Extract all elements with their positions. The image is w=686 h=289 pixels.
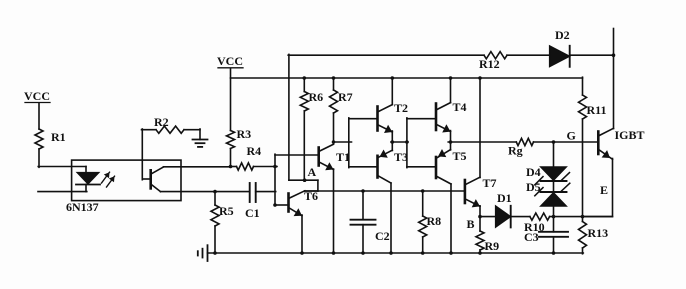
svg-text:R5: R5	[219, 204, 234, 218]
wire T1 base	[275, 154, 319, 156]
transistor T2	[378, 78, 409, 133]
wire R10 to E line	[550, 216, 612, 218]
node C2 top	[361, 189, 365, 193]
wire phototransistor collector to R3/R4 node	[164, 166, 232, 168]
svg-text:D2: D2	[555, 28, 570, 42]
svg-text:R11: R11	[587, 103, 607, 117]
svg-text:T1: T1	[336, 150, 350, 164]
node rail T7	[478, 76, 482, 80]
node rail R9	[478, 251, 482, 255]
wire R11 past gate to R13	[582, 119, 584, 222]
svg-text:VCC: VCC	[24, 89, 50, 103]
top rail VCC	[231, 77, 583, 79]
resistor R13	[579, 222, 609, 249]
node rail T1e	[332, 251, 336, 255]
node R3/R4/collector junction	[229, 165, 233, 169]
resistor R3	[227, 127, 252, 149]
wire phototransistor emitter line	[161, 191, 250, 193]
node rail C2	[361, 251, 365, 255]
resistor R5	[211, 192, 234, 254]
node T1 collector / R7	[332, 140, 336, 144]
node rail T5c	[449, 251, 453, 255]
svg-text:T2: T2	[394, 101, 408, 115]
wire T7 collector riser	[479, 78, 481, 178]
resistor R2	[142, 115, 201, 133]
svg-text:T4: T4	[453, 100, 467, 114]
svg-text:R12: R12	[479, 57, 500, 71]
transistor T5	[436, 149, 467, 254]
wire stage1 base route	[349, 118, 378, 168]
wire R12/D2 top line	[288, 54, 614, 56]
wire gate drive	[448, 141, 598, 143]
node stage1 emitter	[391, 140, 395, 144]
svg-text:G: G	[567, 129, 576, 143]
svg-text:6N137: 6N137	[66, 200, 99, 214]
IGBT Q1	[598, 128, 644, 159]
svg-text:IGBT: IGBT	[615, 128, 645, 142]
wire VCC1 to R1	[38, 103, 40, 129]
node rail R5	[213, 251, 217, 255]
wire T4/T5 emitter join	[450, 131, 452, 150]
capacitor C3	[524, 217, 568, 254]
resistor R10	[524, 213, 550, 234]
svg-text:Rg: Rg	[508, 144, 523, 158]
node rail T3c	[389, 251, 393, 255]
wire C1 to base node	[256, 191, 276, 193]
wire R13 to rail corner	[582, 248, 584, 254]
node A junction	[303, 165, 317, 182]
wire IGBT emitter riser	[582, 159, 613, 217]
svg-text:D1: D1	[497, 191, 512, 205]
wire gate to D4	[553, 142, 555, 167]
optocoupler LED D (6N137 input)	[76, 173, 100, 185]
svg-text:R1: R1	[51, 130, 66, 144]
resistor R8	[419, 191, 441, 254]
node R5 top	[213, 190, 217, 194]
wire T7 emitter to B	[479, 206, 481, 218]
wire stage1 input	[334, 141, 352, 143]
resistor R11	[579, 95, 607, 119]
power label VCC (driver)	[217, 54, 243, 68]
transistor T4	[436, 78, 467, 133]
wire base node vertical	[274, 154, 276, 206]
wire D4 to D5	[553, 181, 555, 192]
wire T6 emitter to rail	[301, 215, 303, 254]
svg-text:C3: C3	[524, 230, 539, 244]
svg-text:A: A	[308, 165, 317, 179]
svg-text:R2: R2	[154, 115, 169, 129]
svg-text:C2: C2	[375, 229, 390, 243]
wire node A horizontal	[289, 180, 318, 191]
node R8 top	[421, 189, 425, 193]
ground (R2 return)	[193, 129, 208, 147]
resistor R12	[479, 52, 507, 71]
svg-text:R9: R9	[485, 239, 500, 253]
svg-text:D4: D4	[526, 165, 541, 179]
node rail R8	[421, 251, 425, 255]
node rail T6e	[300, 251, 304, 255]
node R4/base junction	[273, 165, 277, 169]
node rail R7	[332, 76, 336, 80]
wire stage2 base route	[407, 118, 436, 168]
wire input cathode line	[38, 185, 87, 192]
zener D5	[526, 180, 570, 206]
svg-text:D5: D5	[526, 180, 541, 194]
svg-text:VCC: VCC	[217, 54, 243, 68]
optocoupler U1 6N137 box	[66, 160, 181, 214]
diode D2	[550, 28, 570, 67]
wire T2/T3 emitter join	[391, 131, 393, 151]
zener D4	[526, 165, 570, 185]
bottom rail	[208, 252, 584, 254]
node B	[467, 215, 482, 231]
node rail T4	[449, 76, 453, 80]
LED light arrows	[102, 172, 115, 187]
resistor Rg	[508, 138, 534, 157]
svg-text:C1: C1	[245, 206, 260, 220]
wire rail corner to R11	[582, 77, 584, 95]
node rail T2	[391, 76, 395, 80]
resistor R6	[300, 78, 323, 181]
wire R1 to LED anode	[38, 149, 86, 173]
svg-text:T7: T7	[483, 176, 497, 190]
svg-text:R8: R8	[427, 214, 442, 228]
wire B to D1	[480, 216, 496, 218]
node zener tap	[552, 140, 556, 144]
node T6 base junction	[273, 203, 277, 207]
node D2 to collector rail	[612, 53, 616, 57]
resistor R7	[330, 78, 353, 143]
power label VCC (left)	[24, 89, 50, 103]
label E	[600, 183, 608, 197]
node zener/C3 bottom junction	[552, 215, 556, 219]
transistor T3	[378, 150, 409, 254]
transistor T1	[319, 144, 350, 170]
capacitor C1	[245, 183, 260, 220]
wire IGBT collector rail	[613, 29, 615, 129]
svg-text:E: E	[600, 183, 608, 197]
wire phototransistor base to R2	[142, 129, 151, 180]
transistor T6	[289, 189, 319, 216]
wire T1 emitter to rail	[333, 169, 335, 254]
wire mid bus (T6 coll to T7 base)	[305, 190, 466, 192]
svg-text:T5: T5	[453, 149, 467, 163]
svg-text:B: B	[467, 217, 475, 231]
wire VCC2 riser	[230, 69, 232, 131]
optocoupler phototransistor	[151, 167, 164, 192]
svg-text:R7: R7	[338, 90, 353, 104]
resistor R1	[35, 129, 66, 149]
ground (bottom rail)	[198, 245, 208, 261]
wire stage1 out to stage2 base	[391, 141, 408, 143]
node stage2 emitter	[449, 140, 453, 144]
wire A to R12 riser	[288, 54, 290, 180]
resistor R9	[476, 217, 499, 254]
node R13 top	[581, 215, 585, 219]
diode D1	[496, 191, 512, 227]
label G	[567, 129, 576, 143]
wire D1 to R10	[511, 216, 530, 218]
wire D5 to E line	[553, 206, 555, 217]
svg-text:R4: R4	[247, 144, 262, 158]
svg-text:R13: R13	[588, 226, 609, 240]
node rail C3	[552, 251, 556, 255]
resistor R4	[231, 144, 278, 170]
svg-text:T3: T3	[394, 150, 408, 164]
svg-text:R6: R6	[309, 90, 324, 104]
wire R3 to node	[230, 149, 232, 168]
node stage2 base	[405, 140, 409, 144]
node rail R6	[303, 76, 307, 80]
wire T6 base	[275, 204, 289, 206]
transistor T7	[465, 176, 497, 207]
capacitor C2	[351, 191, 390, 254]
svg-text:R3: R3	[237, 127, 252, 141]
